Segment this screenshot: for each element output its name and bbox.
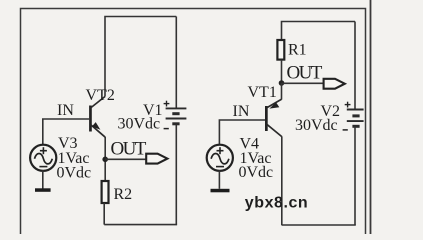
wire: left bottom rail: [104, 224, 177, 226]
wire: V1 bottom column: [175, 125, 177, 225]
svg-text:VT1: VT1: [248, 84, 277, 101]
svg-text:R1: R1: [288, 41, 307, 58]
svg-text:IN: IN: [57, 102, 74, 119]
wire: VT1 collector down to bottom rail: [281, 136, 283, 225]
ground (V4): [211, 189, 230, 193]
schematic frame box: [21, 9, 366, 235]
VT2 collector diagonal: [91, 97, 106, 109]
battery V2 minus sign: [343, 129, 348, 131]
wire: IN to VT2 base: [43, 119, 89, 145]
wire: V2 top column: [354, 22, 356, 109]
svg-text:0Vdc: 0Vdc: [239, 164, 274, 181]
VT1 emitter diagonal: [267, 99, 282, 107]
wire: V2 bottom column: [354, 126, 356, 225]
battery V1 minus sign: [164, 128, 169, 130]
battery V2: [347, 110, 364, 127]
svg-text:0Vdc: 0Vdc: [57, 164, 92, 181]
OUT port symbol (right): [324, 79, 345, 89]
resistor R1: [277, 40, 284, 60]
svg-text:IN: IN: [233, 103, 250, 120]
wire: right top rail: [282, 22, 356, 41]
wire: V4 to ground: [218, 170, 220, 189]
wire: V3 to ground: [42, 170, 44, 188]
svg-text:ybx8.cn: ybx8.cn: [245, 195, 308, 212]
node: right OUT junction dot: [279, 80, 285, 86]
battery V1: [166, 108, 187, 123]
svg-text:VT2: VT2: [86, 87, 115, 104]
wire: left collector to top rail: [105, 17, 176, 97]
VT1 base bar: [265, 106, 268, 131]
transistor VT1: [265, 83, 282, 137]
AC source V4: [207, 145, 233, 171]
page edge line: [370, 0, 372, 234]
svg-text:OUT: OUT: [111, 139, 147, 160]
wire: VT2 emitter down to OUT node: [104, 137, 106, 181]
battery V1 plus sign: [164, 101, 170, 107]
VT2 emitter diagonal: [91, 125, 106, 138]
OUT port symbol (left): [146, 154, 167, 164]
svg-text:30Vdc: 30Vdc: [295, 117, 338, 134]
battery V2 plus sign: [345, 102, 351, 108]
svg-text:30Vdc: 30Vdc: [118, 115, 161, 132]
VT1 collector diagonal: [267, 124, 282, 136]
node: left OUT junction dot: [102, 157, 108, 163]
VT1 emitter wire up to OUT node: [281, 83, 283, 100]
wire: OUT stub (left): [105, 158, 146, 160]
wire: V1 top column: [175, 17, 177, 108]
VT1 emitter arrow: [269, 102, 279, 108]
wire: OUT stub (right): [282, 82, 324, 84]
wire: right bottom rail: [282, 224, 356, 226]
AC source V3: [30, 145, 56, 171]
wire: IN to VT1 base: [219, 120, 265, 144]
VT2 emitter arrow: [92, 122, 101, 130]
ground (V3): [35, 188, 51, 192]
wire: R1 to OUT node: [281, 60, 283, 83]
svg-text:R2: R2: [114, 186, 133, 203]
wire: R2 to bottom rail: [103, 203, 105, 225]
transistor VT2: [89, 97, 105, 138]
resistor R2: [102, 181, 109, 203]
VT2 base bar: [89, 106, 92, 132]
svg-text:OUT: OUT: [287, 63, 323, 84]
